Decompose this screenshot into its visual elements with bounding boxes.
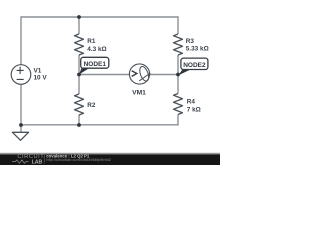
wire node1 to R2 top: [78, 75, 80, 95]
svg-text:LAB: LAB: [32, 159, 43, 165]
svg-text:R4: R4: [187, 99, 196, 106]
svg-text:5.33 kΩ: 5.33 kΩ: [186, 46, 209, 53]
wire voltmeter to node2: [150, 74, 178, 76]
svg-text:R2: R2: [87, 102, 96, 109]
voltage source V1: [11, 65, 31, 85]
wire R3 bottom to node2: [177, 55, 179, 75]
svg-text:NODE1: NODE1: [84, 61, 107, 68]
svg-text:R3: R3: [186, 38, 195, 45]
junction node top R1: [77, 15, 81, 19]
svg-text:R1: R1: [87, 38, 96, 45]
svg-text:10 V: 10 V: [34, 75, 48, 82]
wire left upper: [20, 16, 22, 65]
wire node1 to voltmeter: [79, 74, 129, 76]
wire R1 top stub: [78, 17, 80, 34]
junction ground: [19, 123, 23, 127]
footer separator: [43, 154, 45, 163]
node NODE2 label: [178, 58, 208, 75]
junction node2: [176, 73, 180, 77]
resistor R2: [75, 94, 84, 115]
node NODE1 label: [79, 57, 109, 74]
junction R2 bottom: [77, 123, 81, 127]
svg-text:http://circuitlab.com/c/b64966: http://circuitlab.com/c/b64966fp9b9d2: [46, 157, 111, 162]
wire R1 bottom to node1: [78, 55, 80, 75]
svg-text:NODE2: NODE2: [183, 62, 206, 69]
wire left lower: [20, 84, 22, 125]
wire R2 bottom stub: [78, 115, 80, 125]
footer logo resistor zigzag: [12, 160, 29, 163]
svg-text:4.3 kΩ: 4.3 kΩ: [87, 46, 106, 53]
svg-text:VM1: VM1: [132, 89, 146, 96]
wire node2 to R4 top: [177, 75, 179, 94]
voltmeter VM1: [129, 64, 150, 84]
resistor R3: [174, 34, 183, 55]
junction node1: [77, 73, 81, 77]
resistor R4: [174, 94, 183, 115]
wire right upper (to R3): [177, 16, 179, 34]
resistor R1: [75, 34, 84, 55]
wire R4 bottom to corner: [177, 115, 179, 126]
svg-text:7 kΩ: 7 kΩ: [187, 107, 201, 114]
ground: [12, 132, 28, 140]
wire top: [21, 16, 178, 18]
ground stub wire: [20, 125, 22, 132]
wire bottom: [21, 124, 178, 126]
svg-text:V1: V1: [34, 67, 42, 74]
